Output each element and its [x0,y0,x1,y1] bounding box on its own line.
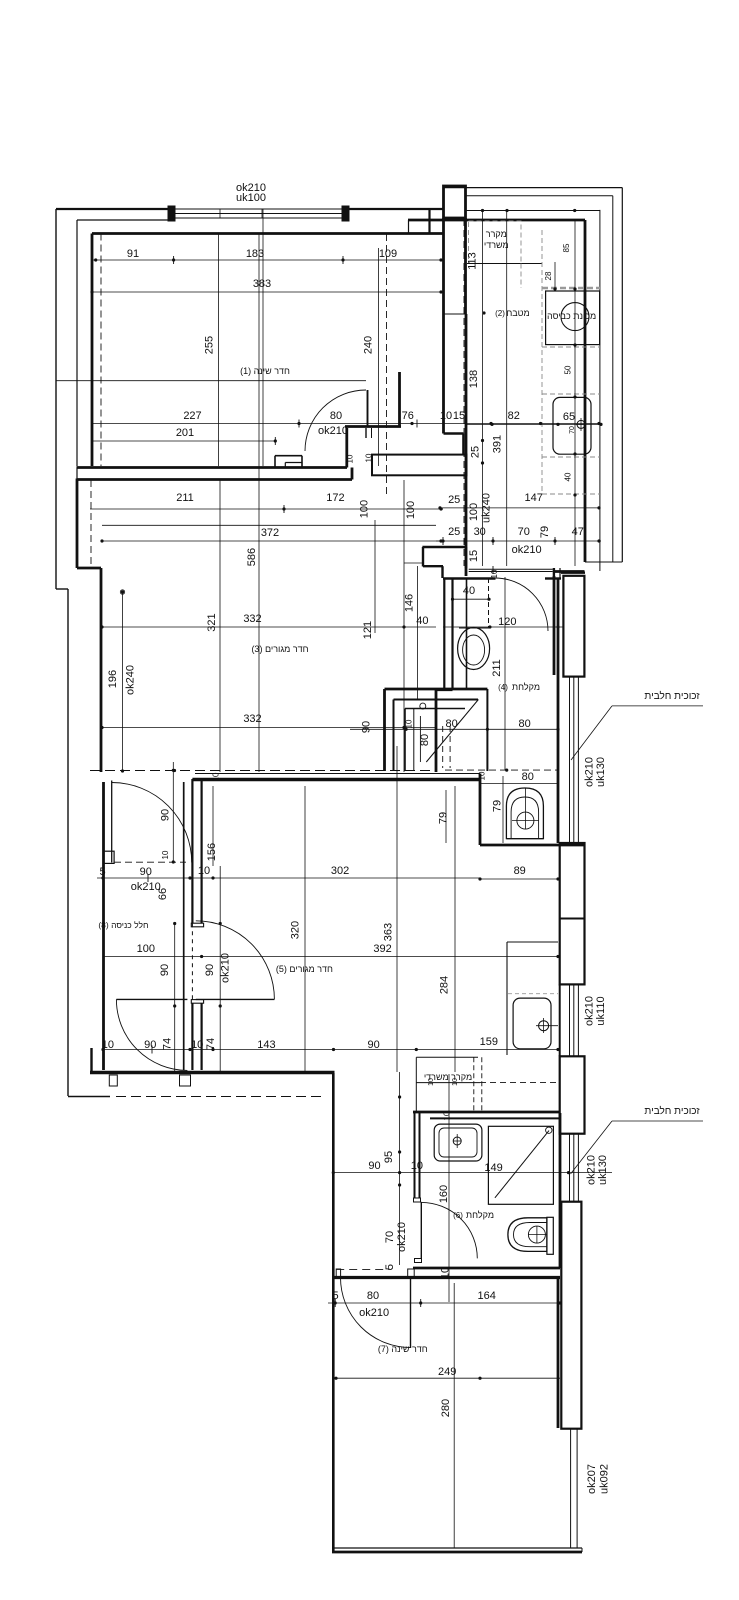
svg-text:363: 363 [383,923,395,941]
svg-text:70: 70 [384,1231,396,1243]
svg-text:120: 120 [498,616,516,628]
svg-text:227: 227 [183,410,201,422]
svg-text:321: 321 [206,613,218,631]
svg-text:(3) חדר מגורים: (3) חדר מגורים [251,644,308,654]
svg-text:80: 80 [367,1290,379,1302]
svg-text:74: 74 [205,1038,217,1050]
svg-text:ok210: ok210 [584,996,596,1026]
svg-text:100: 100 [405,501,417,519]
svg-text:40: 40 [564,472,573,481]
svg-text:מטבח: מטבח [506,308,529,318]
svg-text:15: 15 [453,410,465,422]
svg-text:5: 5 [99,866,105,878]
svg-text:211: 211 [491,659,503,677]
svg-text:28: 28 [544,271,553,280]
svg-text:ok210: ok210 [359,1307,389,1319]
svg-text:255: 255 [204,336,216,354]
svg-text:82: 82 [508,410,520,422]
svg-text:90: 90 [204,964,216,976]
svg-text:159: 159 [480,1036,498,1048]
svg-text:160: 160 [438,1185,450,1203]
svg-text:40: 40 [416,615,428,627]
svg-text:5: 5 [333,1290,339,1302]
svg-text:95: 95 [383,1151,395,1163]
svg-text:10: 10 [191,1039,203,1051]
svg-text:146: 146 [403,594,415,612]
svg-text:172: 172 [326,492,344,504]
svg-text:164: 164 [478,1290,496,1302]
svg-text:ok210: ok210 [220,953,232,983]
svg-text:320: 320 [290,921,302,939]
svg-text:25: 25 [448,494,460,506]
svg-text:80: 80 [445,718,457,730]
svg-text:90: 90 [140,866,152,878]
svg-text:uk100: uk100 [236,192,266,204]
svg-text:משרדי: משרדי [484,240,509,250]
svg-text:332: 332 [243,713,261,725]
svg-text:40: 40 [463,585,475,597]
svg-text:79: 79 [539,526,551,538]
svg-text:90: 90 [368,1160,380,1172]
svg-text:149: 149 [484,1162,502,1174]
svg-text:ok210: ok210 [318,425,348,437]
svg-text:ok240: ok240 [124,665,136,695]
svg-text:109: 109 [379,248,397,260]
svg-text:10: 10 [452,1078,459,1086]
svg-text:85: 85 [562,243,571,252]
svg-text:76: 76 [402,410,414,422]
svg-text:10: 10 [102,1039,114,1051]
svg-text:ok210: ok210 [584,757,596,787]
svg-text:10: 10 [345,454,354,463]
svg-text:10: 10 [490,569,499,578]
svg-text:50: 50 [564,365,573,374]
svg-text:211: 211 [176,492,194,504]
svg-text:79: 79 [492,800,504,812]
svg-text:10: 10 [365,453,374,462]
svg-text:249: 249 [438,1366,456,1378]
svg-text:5: 5 [384,1264,396,1270]
svg-text:10: 10 [440,410,452,422]
svg-text:25: 25 [448,526,460,538]
svg-text:100: 100 [137,943,155,955]
svg-text:זכוכית חלבית: זכוכית חלבית [644,1105,700,1117]
svg-text:מקלחת: מקלחת [466,1210,494,1220]
svg-text:143: 143 [257,1039,275,1051]
svg-text:(8) חלל כניסה: (8) חלל כניסה [98,920,148,930]
svg-text:138: 138 [468,370,480,388]
svg-text:ok210: ok210 [512,544,542,556]
svg-text:70: 70 [518,526,530,538]
svg-text:מכונת כביסה: מכונת כביסה [547,311,596,321]
svg-text:372: 372 [261,527,279,539]
svg-text:10: 10 [440,1267,452,1279]
svg-text:47: 47 [572,526,584,538]
svg-text:uk110: uk110 [595,996,607,1025]
svg-text:196: 196 [107,670,119,688]
svg-text:121: 121 [362,621,374,639]
svg-text:156: 156 [206,843,218,861]
svg-text:10: 10 [212,772,221,781]
svg-text:90: 90 [361,721,373,733]
svg-text:מקרר: מקרר [486,229,507,239]
svg-text:70: 70 [569,426,576,434]
svg-text:240: 240 [363,336,375,354]
svg-text:ok210: ok210 [586,1155,598,1185]
svg-text:10: 10 [477,771,486,780]
svg-text:10: 10 [198,865,210,877]
svg-text:586: 586 [246,548,258,566]
svg-text:284: 284 [438,976,450,994]
svg-text:332: 332 [243,613,261,625]
svg-text:302: 302 [331,865,349,877]
svg-text:80: 80 [419,734,431,746]
svg-text:100: 100 [359,500,371,518]
svg-text:uk130: uk130 [595,757,607,787]
svg-text:183: 183 [246,248,264,260]
svg-text:90: 90 [160,809,172,821]
svg-text:30: 30 [474,526,486,538]
svg-text:147: 147 [525,492,543,504]
svg-text:392: 392 [373,943,391,955]
svg-text:80: 80 [522,771,534,783]
svg-text:10: 10 [442,1111,451,1120]
svg-text:(7) חדר שינה: (7) חדר שינה [378,1344,428,1354]
svg-text:(4): (4) [498,683,508,692]
svg-text:זכוכית חלבית: זכוכית חלבית [644,690,700,702]
svg-text:10: 10 [161,850,170,859]
svg-text:201: 201 [176,427,194,439]
svg-text:ok210: ok210 [396,1222,408,1252]
svg-text:74: 74 [161,1038,173,1050]
svg-text:(2): (2) [495,309,505,318]
svg-text:15: 15 [468,550,480,562]
svg-text:10: 10 [404,719,413,728]
svg-text:383: 383 [253,278,271,290]
svg-text:10: 10 [428,1078,435,1086]
svg-text:113: 113 [467,252,479,270]
svg-text:uk130: uk130 [597,1155,609,1185]
svg-text:66: 66 [157,888,169,900]
svg-text:uk092: uk092 [598,1464,610,1494]
svg-text:(1) חדר שינה: (1) חדר שינה [240,366,290,376]
svg-text:79: 79 [438,812,450,824]
svg-text:מקלחת: מקלחת [512,682,540,692]
svg-text:65: 65 [563,411,575,423]
svg-text:25: 25 [469,446,481,458]
svg-text:91: 91 [127,248,139,260]
svg-text:80: 80 [330,410,342,422]
svg-text:(5) חדר מגורים: (5) חדר מגורים [276,964,333,974]
svg-text:89: 89 [514,865,526,877]
svg-text:90: 90 [367,1039,379,1051]
svg-text:90: 90 [159,964,171,976]
svg-text:80: 80 [518,718,530,730]
svg-text:280: 280 [440,1399,452,1417]
svg-text:90: 90 [144,1039,156,1051]
svg-text:(6): (6) [453,1211,463,1220]
svg-text:10: 10 [411,1160,423,1172]
svg-text:100: 100 [468,503,480,521]
svg-text:uk240: uk240 [481,493,493,523]
svg-text:391: 391 [492,435,504,453]
svg-text:ok207: ok207 [586,1464,598,1494]
